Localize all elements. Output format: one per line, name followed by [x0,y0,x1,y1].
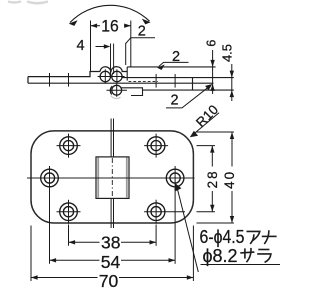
svg-text:28: 28 [205,171,220,188]
svg-text:2: 2 [170,93,178,109]
side view: hidden dashed line [129,81,159,83]
svg-text:54: 54 [101,252,121,272]
hole top-right [144,134,168,158]
dim 16 extension line right [130,21,132,67]
katakana RA [257,250,271,263]
hole top-left [57,134,81,158]
dim 16 extension line left [90,21,92,72]
katakana NA [262,230,277,244]
dim 6 bottom arrow [210,84,214,91]
svg-text:ϕ8.2: ϕ8.2 [203,246,238,266]
dim 54 extension lines [50,188,176,264]
leader for upper right 2 [159,62,189,66]
side view: bottom line y=90.1 [143,89,234,91]
note leader from mid-right hole [177,187,199,273]
plan view: plate outline R10 [31,131,193,223]
dim 4.5 bottom arrow [230,90,234,97]
dim 70 dim line [31,277,193,279]
dim 4 arrow [96,46,106,48]
dim 6 line [212,50,214,94]
R10 leader line [193,113,220,135]
dim 4.5 line [231,64,233,101]
side view: step near pin3 [122,88,143,96]
hole bottom-right [144,200,185,224]
svg-text:4.5: 4.5 [219,44,234,62]
side view: long bottom-of-leaf line y=83.2 [28,82,214,84]
side view: right leaf end edge [192,78,194,91]
svg-text:6-ϕ4.5: 6-ϕ4.5 [200,227,245,247]
hole bottom-left [57,200,81,224]
dim 28 extension lines [197,146,216,212]
side view: long top line y=66.9 [127,66,215,68]
note underline [201,264,281,266]
svg-text:70: 70 [99,271,119,291]
swing arc right arrowhead [142,19,151,25]
hole centreline ticks left leaf [50,73,69,87]
projection lines from dims into knuckle [111,44,114,77]
swing arc [70,5,150,22]
svg-text:2: 2 [138,23,146,39]
dim 40 dim line [231,132,233,223]
dim 38 extension lines [69,225,157,246]
svg-text:38: 38 [101,233,121,253]
katakana SA [240,248,254,262]
svg-text:4: 4 [76,38,84,54]
dim 70 extension lines [31,226,193,282]
plan view: joint double line above knuckle [111,119,113,157]
leader for top 2 [126,38,155,65]
dim 4.5 top arrow [230,71,234,78]
dim 54 dim line [50,259,176,261]
hole mid-right [166,166,184,190]
dim 16 dimension line [91,25,131,27]
knuckle rect inner side lines [98,158,127,198]
dim 6 top arrow [210,60,214,67]
dim 16 arrows [91,24,98,28]
plan view horizontal centreline [27,177,195,179]
cropped faint text remnants top-left [8,2,48,4]
plan view: knuckle rectangle [96,157,129,199]
side view: knuckle humps [100,67,127,73]
svg-text:16: 16 [101,17,119,36]
hole mid-left [41,166,59,190]
dim 38 dim line [69,241,157,243]
pin barrel 3 [112,85,122,95]
hole centreline ticks right leaf [156,74,175,88]
wrap arc left of pin3 [110,86,112,94]
svg-text:6: 6 [205,40,219,47]
svg-text:40: 40 [222,172,237,189]
dim 28 dim line [211,146,213,212]
faint hidden arc below pin3 [111,96,121,99]
side view: left leaf plate top + left step [28,72,100,84]
leader for bottom 2 [166,86,210,108]
side view: right leaf top y=77.6 [122,77,234,79]
katakana A [247,231,260,244]
swing arc left arrowhead [69,20,78,26]
knuckle centreline dashed [111,158,113,198]
dim 40 extension lines [197,132,234,223]
side view: right knuckle edge vertical [126,67,128,81]
pin barrel 1 [100,71,110,81]
pin barrel 2 [112,71,122,81]
plan view: joint double line below knuckle [111,198,113,228]
